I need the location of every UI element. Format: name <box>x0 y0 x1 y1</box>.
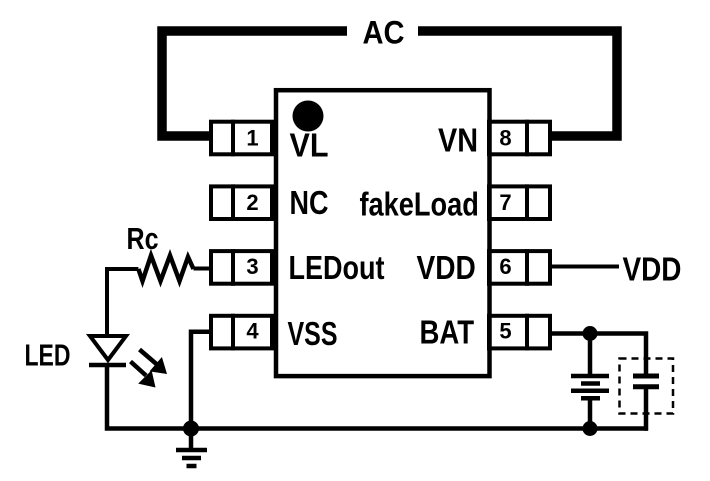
svg-text:1: 1 <box>246 126 258 151</box>
svg-text:2: 2 <box>246 190 258 215</box>
svg-text:7: 7 <box>499 190 511 215</box>
svg-text:6: 6 <box>499 254 511 279</box>
svg-text:fakeLoad: fakeLoad <box>360 186 479 223</box>
svg-text:VDD: VDD <box>623 251 682 288</box>
svg-text:VDD: VDD <box>417 249 476 286</box>
svg-text:8: 8 <box>499 126 511 151</box>
svg-text:4: 4 <box>246 319 259 344</box>
svg-text:VSS: VSS <box>288 315 338 352</box>
svg-text:VN: VN <box>438 122 478 159</box>
svg-text:BAT: BAT <box>420 314 475 351</box>
svg-text:NC: NC <box>290 184 329 221</box>
svg-text:LED: LED <box>25 338 71 373</box>
svg-text:3: 3 <box>246 254 258 279</box>
svg-text:5: 5 <box>499 319 511 344</box>
svg-text:Rc: Rc <box>127 221 159 256</box>
svg-text:LEDout: LEDout <box>289 249 385 286</box>
svg-text:AC: AC <box>363 15 405 51</box>
svg-text:VL: VL <box>290 127 329 164</box>
